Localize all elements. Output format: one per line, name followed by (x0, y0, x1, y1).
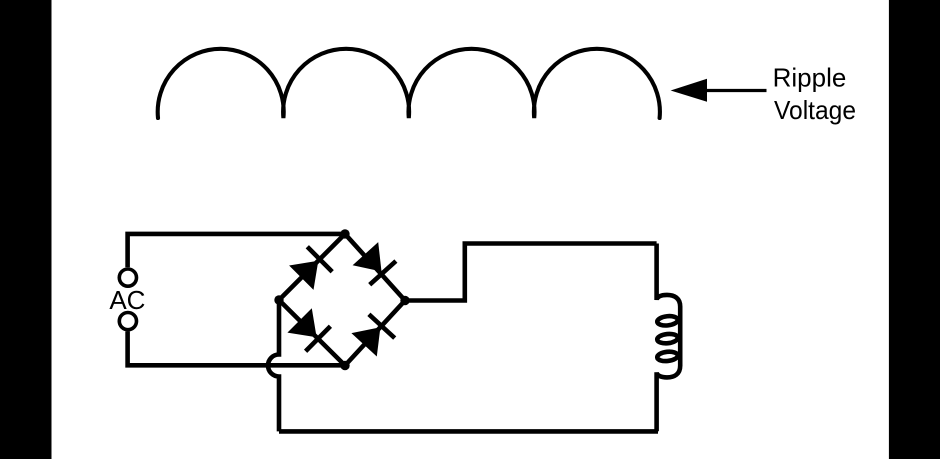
arrow shaft (705, 89, 767, 92)
inductor loop 3 (657, 351, 678, 362)
wire: right node to top rail to inductor (405, 244, 657, 301)
inductor loop 1 (657, 315, 678, 326)
diode D2 triangle (top node to right node) (353, 242, 382, 271)
inductor L1 body (657, 244, 681, 432)
left black margin bar (0, 0, 52, 459)
diode D3 triangle (left node to bottom node) (287, 308, 316, 337)
diode D4 cathode bar (369, 314, 395, 338)
svg-text:AC: AC (109, 285, 145, 315)
svg-text:Ripple: Ripple (773, 62, 847, 92)
node right (400, 296, 409, 305)
inductor loop 2 (657, 333, 678, 344)
node top (340, 229, 349, 238)
diode D2 cathode bar (370, 261, 396, 285)
wire: AC top to bridge top node (128, 234, 345, 267)
diode D1 triangle (left node to top node) (289, 261, 318, 290)
diode D1 cathode bar (307, 247, 332, 272)
ripple voltage waveform (158, 49, 660, 118)
arrow head (671, 79, 707, 102)
node bottom (340, 361, 349, 370)
diode D3 cathode bar (306, 326, 331, 351)
diode D4 triangle (bottom node to right node) (351, 327, 380, 356)
svg-text:Voltage: Voltage (774, 95, 856, 125)
wire: AC bottom to bridge bottom node (128, 332, 345, 366)
bottom rail wire (279, 429, 658, 434)
right black margin bar (889, 0, 940, 459)
AC terminal top circle (119, 269, 136, 286)
AC terminal bottom circle (119, 313, 136, 330)
node left (274, 295, 283, 304)
bridge diamond wires (279, 234, 405, 366)
wire: left node down with crossover hop to bottom rail (268, 300, 279, 431)
